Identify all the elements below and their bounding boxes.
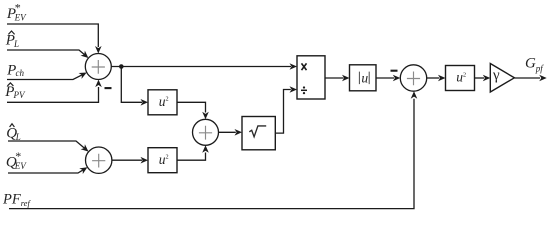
wire branch node down to u2 block B1 bbox=[121, 67, 142, 103]
wire abs block to sum3 bbox=[376, 77, 394, 79]
arrowhead sqrt into divide input bbox=[290, 86, 298, 93]
u2 block B3 bbox=[446, 66, 475, 91]
summing junction S3 bbox=[400, 65, 426, 91]
arrowhead Phat_L into sum1 bbox=[81, 51, 89, 58]
wire sqrt block to divide input bbox=[275, 90, 291, 134]
arrowhead Q*_EV into sumQ bbox=[79, 167, 87, 174]
svg-text:EV: EV bbox=[14, 12, 27, 22]
svg-text:u: u bbox=[361, 70, 368, 85]
arrowhead B3 into gain bbox=[483, 75, 491, 82]
svg-text:ch: ch bbox=[16, 68, 25, 78]
label G_pf bbox=[525, 56, 544, 74]
label Phat_PV bbox=[4, 83, 26, 100]
abs block bbox=[350, 65, 377, 91]
arrowhead P_ch into sum1 bbox=[79, 72, 87, 78]
minus sign at S3 left input bbox=[391, 70, 398, 72]
svg-text:PF: PF bbox=[2, 192, 21, 208]
label Q*_EV bbox=[6, 149, 27, 171]
arrowhead Phat_PV into sum1 bottom bbox=[95, 80, 102, 88]
product divide block bbox=[297, 56, 325, 99]
wire product block to abs block bbox=[325, 77, 344, 79]
arrowhead B1 into sum2 top bbox=[202, 112, 209, 120]
arrowhead B2 into sum2 bottom bbox=[202, 145, 209, 153]
wire Phat_PV input bbox=[7, 87, 99, 102]
label PF_ref bbox=[2, 192, 31, 208]
arrowhead output G_pf bbox=[539, 75, 547, 82]
wire Q*_EV input bbox=[8, 170, 83, 173]
wire Qhat_L input bbox=[8, 141, 84, 148]
arrowhead sum3 into B3 bbox=[438, 75, 446, 82]
wire B1 to sum2 top bbox=[177, 102, 206, 112]
wire sumQ to u2 block B2 bbox=[112, 159, 142, 161]
arrowhead main into product x input bbox=[290, 63, 298, 70]
wire Phat_L input bbox=[7, 50, 84, 55]
svg-text:L: L bbox=[15, 132, 21, 142]
sqrt block bbox=[242, 117, 275, 150]
gain triangle gamma bbox=[490, 64, 514, 93]
arrowhead Qhat_L into sumQ bbox=[81, 144, 89, 151]
svg-text:γ: γ bbox=[492, 68, 500, 84]
wire P*_EV input bbox=[7, 24, 98, 47]
wire B3 to gain triangle bbox=[475, 77, 485, 79]
wire P_ch input bbox=[7, 75, 82, 80]
u2 block B2 bbox=[148, 148, 177, 173]
summing junction SQ bbox=[86, 147, 112, 173]
arrowhead sum2 into sqrt bbox=[235, 129, 243, 136]
summing junction S1 bbox=[85, 54, 111, 80]
wire sum3 to u2 block B3 bbox=[427, 77, 440, 79]
svg-text:EV: EV bbox=[14, 161, 27, 171]
label Phat_L bbox=[5, 31, 19, 49]
u2 block B1 bbox=[148, 90, 177, 115]
label P*_EV bbox=[6, 1, 27, 23]
svg-text:G: G bbox=[525, 56, 536, 72]
arrowhead into B1 bbox=[141, 99, 149, 106]
wire PF_ref line to sum3 bottom bbox=[9, 99, 414, 209]
arrowhead PF_ref into sum3 bottom bbox=[411, 91, 418, 99]
label Qhat_L bbox=[6, 124, 21, 142]
wire sum2 to sqrt block bbox=[219, 131, 236, 133]
wire gain output G_pf bbox=[514, 77, 540, 79]
wire B2 to sum2 bottom bbox=[177, 153, 206, 161]
wire main line sum1 to product block bbox=[111, 66, 291, 68]
summing junction S2 bbox=[193, 119, 219, 145]
arrowhead product into abs bbox=[342, 75, 350, 82]
node junction dot bbox=[119, 64, 124, 69]
label P_ch bbox=[6, 63, 24, 79]
arrowhead abs into sum3 bbox=[393, 75, 401, 82]
arrowhead P*_EV into sum1 top bbox=[95, 46, 102, 54]
minus sign at S1 bottom input bbox=[105, 87, 112, 89]
arrowhead sumQ into B2 bbox=[141, 157, 149, 164]
svg-text:L: L bbox=[13, 39, 19, 49]
svg-text:PV: PV bbox=[13, 90, 26, 100]
